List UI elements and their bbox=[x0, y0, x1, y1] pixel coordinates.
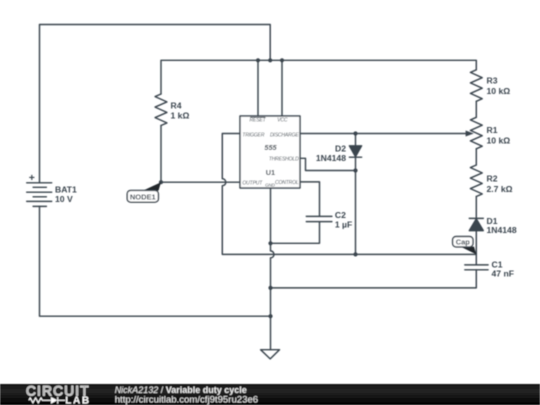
wire gnd vertical (with hop over cap wire) bbox=[271, 188, 275, 350]
ground bbox=[261, 350, 280, 359]
svg-text:10 kΩ: 10 kΩ bbox=[487, 135, 511, 145]
555 internal labels bbox=[242, 118, 299, 188]
battery BAT1 bbox=[27, 183, 52, 207]
node threshold/D2 bbox=[353, 168, 357, 172]
svg-text:555: 555 bbox=[264, 143, 277, 152]
svg-text:1N4148: 1N4148 bbox=[316, 153, 346, 163]
wire C2 bottom return bbox=[271, 222, 320, 243]
svg-text:DISCHARGE: DISCHARGE bbox=[270, 132, 299, 138]
svg-text:+: + bbox=[29, 172, 35, 184]
wire vcc rail bbox=[161, 60, 476, 94]
svg-text:CONTROL: CONTROL bbox=[275, 180, 299, 186]
capacitor C2 bbox=[306, 216, 332, 221]
svg-text:R2: R2 bbox=[487, 174, 498, 184]
wire vcc pin stub bbox=[281, 60, 283, 116]
node gnd/C1 return bbox=[268, 286, 272, 290]
wire discharge to R1 wiper bbox=[300, 133, 467, 135]
wire output bbox=[161, 181, 240, 183]
svg-text:NODE1: NODE1 bbox=[130, 192, 156, 201]
wire threshold bbox=[300, 158, 356, 170]
wire trigger (with hop over output wire) bbox=[222, 134, 476, 255]
wire reset pin stub bbox=[257, 60, 259, 116]
svg-text:GND: GND bbox=[265, 183, 276, 188]
resistor R3 bbox=[470, 70, 482, 102]
svg-text:10 V: 10 V bbox=[55, 194, 73, 204]
svg-text:VCC: VCC bbox=[277, 118, 288, 124]
svg-text:R1: R1 bbox=[487, 125, 498, 135]
R1 wiper arrowhead bbox=[466, 131, 474, 137]
logo resistor-diode-LAB bbox=[29, 397, 65, 404]
svg-text:1 µF: 1 µF bbox=[335, 219, 352, 229]
flag NODE1 bbox=[127, 182, 161, 202]
svg-text:1 kΩ: 1 kΩ bbox=[171, 111, 190, 121]
svg-text:OUTPUT: OUTPUT bbox=[242, 181, 263, 187]
svg-text:R3: R3 bbox=[487, 76, 498, 86]
op box U1 555 bbox=[240, 116, 300, 188]
node reset/vcc rail dots bbox=[256, 58, 260, 62]
wire R1-R2 lead bbox=[475, 149, 477, 165]
svg-text:RESET: RESET bbox=[250, 118, 267, 124]
node gnd/battery bbox=[268, 314, 272, 318]
wire top rail bbox=[40, 25, 271, 183]
svg-text:NickA2132 / Variable duty cycl: NickA2132 / Variable duty cycle bbox=[115, 385, 247, 395]
svg-text:U1: U1 bbox=[266, 168, 275, 177]
wire R2-D1 lead bbox=[475, 197, 477, 219]
svg-text:Cap: Cap bbox=[456, 237, 471, 246]
resistor R1 (pot) bbox=[470, 117, 482, 149]
svg-text:47 nF: 47 nF bbox=[492, 269, 514, 279]
svg-text:2.7 kΩ: 2.7 kΩ bbox=[487, 184, 513, 194]
capacitor C1 bbox=[465, 254, 488, 269]
wire R3-R1 lead bbox=[475, 101, 477, 117]
wire D1 to cap node bbox=[475, 231, 477, 255]
svg-text:TRIGGER: TRIGGER bbox=[242, 132, 264, 138]
svg-text:1N4148: 1N4148 bbox=[487, 225, 517, 235]
reset overline bbox=[251, 116, 266, 118]
svg-text:R4: R4 bbox=[171, 100, 182, 110]
wire battery bottom bbox=[40, 206, 271, 316]
svg-text:http://circuitlab.com/cfj9t95r: http://circuitlab.com/cfj9t95ru23e6 bbox=[115, 395, 258, 405]
diode D2 bbox=[349, 146, 361, 157]
node discharge/D2 bbox=[353, 131, 357, 135]
svg-text:10 kΩ: 10 kΩ bbox=[487, 86, 511, 96]
svg-text:THRESHOLD: THRESHOLD bbox=[269, 156, 299, 162]
wire R4 bottom lead bbox=[160, 126, 162, 183]
diode D1 bbox=[469, 217, 483, 219]
resistor R2 bbox=[470, 165, 482, 197]
flag Cap bbox=[453, 237, 477, 255]
wire D2 branch bbox=[355, 134, 357, 255]
svg-text:C2: C2 bbox=[335, 210, 346, 220]
junction dots bbox=[159, 58, 358, 318]
node cap wire/D2 bbox=[353, 252, 357, 256]
svg-text:LAB: LAB bbox=[65, 395, 90, 405]
node NODE1 junction bbox=[159, 180, 163, 184]
resistor R4 bbox=[155, 94, 167, 126]
wire control to C2 bbox=[300, 182, 320, 216]
wire C1 bottom return bbox=[271, 270, 477, 288]
node gnd/C2 bbox=[268, 241, 272, 245]
